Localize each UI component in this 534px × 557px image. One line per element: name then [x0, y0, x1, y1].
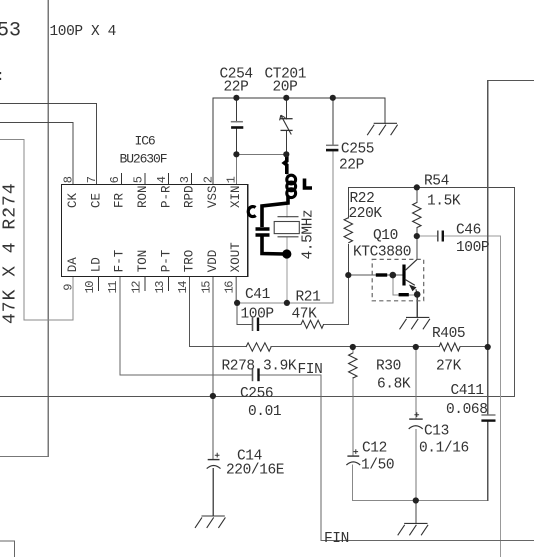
IC pin number underlines bottom: [98, 277, 168, 292]
wire node XIN y=154.3: [236, 154, 286, 184]
IC pin numbers top row: [62, 176, 239, 183]
svg-text:C256: C256: [240, 386, 273, 402]
tick mark over R274: [3, 210, 8, 212]
svg-text:DA: DA: [66, 257, 80, 273]
svg-text:1/50: 1/50: [361, 458, 394, 474]
svg-text:C255: C255: [341, 142, 374, 158]
IC pin names top row: [66, 185, 243, 208]
svg-text:VDD: VDD: [206, 250, 220, 273]
svg-text:R30: R30: [376, 359, 401, 375]
svg-text:R22: R22: [350, 191, 375, 207]
svg-text:C41: C41: [245, 287, 270, 303]
svg-text:TON: TON: [136, 250, 150, 273]
svg-text:R278 3.9K: R278 3.9K: [222, 359, 297, 375]
svg-text:10: 10: [83, 281, 97, 294]
svg-text:4: 4: [155, 176, 169, 183]
wire long vertical at x=48: [0, 0, 48, 457]
svg-text:1.5K: 1.5K: [427, 194, 461, 210]
wire bottom run y=500.5: [353, 500, 488, 502]
capacitor CT201 trimmer: [280, 115, 293, 134]
svg-text:8: 8: [62, 176, 76, 183]
IC pin names bottom row: [66, 242, 243, 273]
ground C14: [195, 516, 225, 528]
svg-text:3: 3: [178, 176, 192, 183]
wire C13 branch: [415, 347, 417, 501]
svg-text:FR: FR: [113, 192, 127, 208]
svg-text:13: 13: [153, 281, 167, 294]
bold overlay: crystal bottom node dot: [282, 249, 291, 258]
IC pin number underlines top: [122, 173, 192, 185]
svg-text::: :: [0, 69, 4, 85]
svg-text:P-R: P-R: [159, 185, 173, 208]
resistor R54 1.5K vertical: [413, 203, 421, 228]
resistor R405 27K horizontal: [439, 343, 460, 351]
svg-text:47K: 47K: [292, 307, 318, 323]
wire C254 branch: [235, 98, 237, 155]
svg-text:27K: 27K: [436, 359, 462, 375]
wire R54 net y=187.4: [348, 186, 514, 188]
wire crystal thin vertical: [286, 154, 288, 303]
wire VSS pin2 up and top bus: [213, 98, 385, 185]
wire Q10 base y=275: [348, 274, 402, 276]
capacitor C411 0.068 plates: [481, 414, 495, 416]
svg-text:CK: CK: [66, 192, 80, 208]
capacitor C12 1/50 electrolytic: [346, 449, 360, 465]
svg-text:FIN: FIN: [298, 362, 323, 378]
bold overlay: emitter dash: [399, 293, 409, 296]
wire C411 long vertical: [488, 81, 534, 501]
ground C13 bottom: [398, 523, 428, 535]
wire C255 branch: [332, 98, 334, 146]
capacitor C46 100P horizontal plates: [437, 231, 439, 242]
wire CK pin8 to left edge: [0, 123, 73, 185]
op-amp/IC U1 IC6 BU2630F box: [62, 184, 248, 276]
svg-text:100P X 4: 100P X 4: [50, 24, 116, 40]
wire R54 branch and collector: [416, 187, 418, 259]
wire F-T pin11 C256 FIN run: [120, 277, 534, 541]
svg-text:9: 9: [62, 284, 76, 291]
svg-text:R21: R21: [296, 290, 321, 306]
svg-text:6.8K: 6.8K: [377, 377, 411, 393]
svg-text:0.1/16: 0.1/16: [419, 441, 469, 457]
svg-text:5: 5: [132, 176, 146, 183]
resistor R278 3.9K horizontal: [246, 343, 271, 351]
svg-text:P-T: P-T: [159, 249, 173, 272]
capacitor C254: [231, 122, 244, 128]
wire TRO pin14 R278 R405 run y=347: [190, 277, 488, 347]
svg-text:XIN: XIN: [229, 185, 243, 208]
ground Q10 emitter: [400, 317, 430, 329]
svg-text:11: 11: [106, 281, 120, 294]
svg-text:1: 1: [225, 176, 239, 183]
svg-text:0.01: 0.01: [248, 404, 281, 420]
svg-text:FIN: FIN: [324, 531, 349, 547]
capacitor C14 220/16E electrolytic: [207, 453, 221, 469]
svg-text:47K X 4 R274: 47K X 4 R274: [1, 182, 21, 324]
svg-text:RON: RON: [136, 185, 150, 208]
svg-text:KTC3880: KTC3880: [353, 245, 411, 261]
capacitor C13 0.1/16 electrolytic: [409, 412, 423, 429]
svg-text:LD: LD: [89, 257, 103, 272]
svg-text:15: 15: [199, 281, 213, 294]
svg-text:16: 16: [223, 281, 237, 294]
resistor R21 47K horizontal: [301, 320, 324, 328]
svg-text:22P: 22P: [339, 158, 364, 174]
svg-text:0.068: 0.068: [446, 402, 488, 418]
svg-text:VSS: VSS: [206, 185, 220, 208]
wire CT201 branch: [285, 98, 287, 155]
wire C12 bottom: [352, 465, 354, 501]
crystal X201 4.5MHz: [274, 217, 299, 237]
svg-text:4.5MHz: 4.5MHz: [301, 210, 317, 260]
svg-text:RPD: RPD: [183, 185, 197, 208]
svg-text:F-T: F-T: [113, 249, 127, 272]
svg-text:XOUT: XOUT: [229, 242, 243, 273]
wire VDD pin15 down: [212, 277, 214, 517]
svg-text:12: 12: [130, 281, 144, 294]
resistor R30 6.8K vertical: [349, 353, 357, 378]
bold overlay: crystal LC highlight: [248, 155, 312, 254]
wire C46 run y=236.1: [417, 236, 501, 557]
svg-text:TRO: TRO: [183, 250, 197, 273]
wire R30 branch down to C12: [352, 347, 354, 456]
capacitor C255: [326, 145, 338, 150]
svg-text:14: 14: [176, 281, 190, 294]
ground top-right (bus): [367, 123, 397, 135]
wire Q10 emitter to ground: [416, 294, 418, 317]
svg-text:Q10: Q10: [373, 228, 398, 244]
svg-text:CE: CE: [89, 193, 103, 208]
wire CE pin7 to left edge: [0, 104, 96, 185]
wire long horizontal y=396 to right loop: [0, 187, 515, 396]
svg-text:C12: C12: [362, 441, 387, 457]
svg-text:2: 2: [201, 176, 215, 183]
svg-text:R405: R405: [432, 326, 465, 342]
wire bottom-left corner stub: [0, 541, 15, 557]
transistor Q2 Q10 KTC3880: [372, 259, 424, 300]
svg-text:BU2630F: BU2630F: [120, 152, 167, 167]
IC pin numbers bottom row: [62, 281, 237, 294]
wire node XOUT y=302.9: [236, 277, 333, 303]
capacitor C256 0.01 horizontal plates: [252, 368, 254, 381]
svg-text:6: 6: [108, 176, 122, 183]
wire C13 ground stub: [415, 501, 417, 524]
svg-text:C411: C411: [451, 383, 484, 399]
capacitor C41 100P horizontal plates: [252, 318, 254, 332]
svg-text:22P: 22P: [224, 80, 249, 96]
svg-text:IC6: IC6: [135, 134, 155, 149]
svg-text:53: 53: [0, 20, 21, 43]
svg-text:C13: C13: [424, 424, 449, 440]
svg-text:R54: R54: [424, 174, 449, 190]
wire Q10 base-emitter link: [393, 275, 417, 295]
bold overlay: base dash: [376, 273, 387, 276]
wire C41 R21 run y=324.3: [237, 275, 348, 324]
svg-text:220/16E: 220/16E: [226, 463, 284, 479]
svg-text:100P: 100P: [456, 240, 489, 256]
wire DA pin9 to left edge: [0, 139, 73, 319]
wire R22 branch: [347, 187, 349, 275]
svg-text:220K: 220K: [349, 206, 383, 222]
resistor R22 220K vertical: [344, 218, 352, 243]
svg-text:20P: 20P: [273, 80, 298, 96]
svg-text:100P: 100P: [241, 307, 274, 323]
svg-text:C46: C46: [456, 223, 481, 239]
svg-text:7: 7: [85, 176, 99, 183]
